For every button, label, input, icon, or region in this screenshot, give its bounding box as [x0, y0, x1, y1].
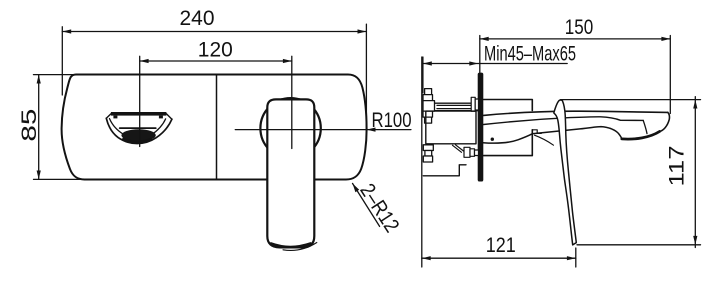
spout inner rim: [110, 119, 166, 139]
spout outlet heavy bottom: [622, 132, 660, 140]
dimension 85 line: [34, 75, 85, 180]
svg-text:240: 240: [180, 7, 215, 30]
spout outer bowl: [106, 118, 172, 143]
R100 leader line: [235, 129, 411, 131]
faceplate outline (front view): [62, 75, 367, 180]
svg-text:117: 117: [666, 146, 689, 187]
svg-text:R100: R100: [372, 109, 412, 132]
handle bottom heavy edge: [271, 244, 311, 248]
spout bowl heavy bottom: [124, 139, 151, 142]
trim body (side view): [484, 100, 533, 156]
spout outlet inner line: [643, 120, 647, 133]
spout blade lower line: [484, 117, 644, 125]
inlet pipe (in-wall): [435, 103, 479, 111]
aerator dark ellipse: [121, 129, 155, 141]
sweep dot: [491, 138, 494, 141]
spout bar left tick: [113, 116, 117, 119]
lever handle (side view): [554, 100, 577, 245]
spout bowl right flare: [166, 114, 172, 119]
dimension 240 line: [62, 24, 366, 130]
spout top bar (front view): [111, 112, 166, 116]
dimension 150: [480, 36, 671, 114]
underside sweep: [483, 127, 622, 143]
lever base shadow curve: [535, 135, 554, 145]
svg-text:120: 120: [198, 39, 233, 62]
svg-text:2–R12: 2–R12: [355, 180, 403, 237]
spout bowl left flare: [106, 114, 111, 119]
svg-text:85: 85: [18, 109, 41, 142]
spout inner horizontal line: [120, 127, 156, 129]
spout blade top line: [484, 111, 668, 115]
dimension 117: [561, 97, 701, 248]
plate seam vertical line: [216, 75, 218, 180]
dimension Min45-Max65: [423, 57, 567, 93]
handle bottom shadow arc: [283, 243, 317, 251]
lower wall nut: [464, 147, 479, 157]
spout bar right tick: [159, 116, 163, 119]
svg-text:Min45–Max65: Min45–Max65: [484, 43, 576, 66]
2-R12 leader line: [353, 183, 380, 226]
wall plate bar (side view): [478, 73, 484, 182]
dimension 120 line: [140, 56, 292, 148]
chamfer lines: [453, 145, 462, 152]
lever base step: [532, 130, 541, 134]
spout end face: [660, 112, 670, 131]
upper wall nut: [471, 97, 478, 111]
svg-text:150: 150: [565, 16, 594, 39]
rough-in outline: [423, 165, 466, 176]
rough-in back line: [421, 57, 423, 267]
upper bolt stack: [423, 89, 435, 124]
svg-text:121: 121: [486, 234, 516, 257]
handle (front view): [267, 99, 314, 247]
valve body box: [426, 111, 476, 144]
lower bolt stack: [423, 145, 433, 162]
dimension 121: [422, 248, 576, 267]
escutcheon circle behind handle: [260, 98, 320, 158]
